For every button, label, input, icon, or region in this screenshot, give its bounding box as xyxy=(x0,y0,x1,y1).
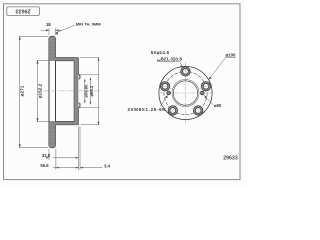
lug hole lower-left xyxy=(168,106,177,115)
bolt circle (dashed) xyxy=(164,71,207,114)
dim 152.2 extension lines xyxy=(37,60,49,121)
vertical centerline xyxy=(185,62,187,125)
svg-text:32.5: 32.5 xyxy=(42,153,51,158)
M8 hole right xyxy=(201,91,205,95)
arrowheads 55.6 xyxy=(56,167,59,169)
min-th leader arrow xyxy=(55,32,58,35)
arrow counterbore leader xyxy=(180,65,183,68)
hub plate faces xyxy=(74,58,78,125)
dim 271 extension lines xyxy=(19,36,49,147)
svg-text:⌀100: ⌀100 xyxy=(226,52,237,57)
dim 32.5 line xyxy=(53,157,79,159)
arrowheads 32.5 xyxy=(46,157,49,159)
hatch band top xyxy=(49,36,56,60)
title box xyxy=(7,7,40,16)
arrowheads dia152.2 xyxy=(36,60,38,63)
bore lines xyxy=(74,78,80,105)
arrowheads right dim xyxy=(98,58,100,61)
hub flange circle xyxy=(159,66,212,119)
hatch skirt top xyxy=(56,58,79,61)
hat skirt bottom xyxy=(56,122,79,125)
horizontal centerline xyxy=(159,92,213,94)
leader dia100 xyxy=(209,57,236,79)
svg-text:⌀152.2: ⌀152.2 xyxy=(38,83,43,98)
arrowheads thickness dim xyxy=(46,29,49,31)
leader dia80 xyxy=(204,96,214,106)
svg-text:29633: 29633 xyxy=(16,7,31,13)
lug hole top xyxy=(181,67,190,76)
right side dim line xyxy=(98,58,100,125)
dim 152.2 line xyxy=(37,60,39,121)
svg-text:18: 18 xyxy=(46,22,51,27)
lug hole upper-left xyxy=(160,82,169,91)
svg-text:⌀66.2: ⌀66.2 xyxy=(89,85,94,96)
svg-text:55.6: 55.6 xyxy=(40,163,49,168)
arrowhead 3.4 xyxy=(80,167,83,169)
centerline left view xyxy=(43,90,101,92)
border frame xyxy=(4,4,241,180)
bore circle 66.2 xyxy=(172,80,199,107)
M8 hole left xyxy=(167,91,171,95)
braking band outline xyxy=(49,36,56,147)
mounting pad step xyxy=(78,75,80,108)
band inner-diameter silhouette lines xyxy=(49,60,56,121)
svg-text:29633: 29633 xyxy=(223,155,238,161)
dim 59.85 line xyxy=(84,79,86,103)
arrowheads dia271 xyxy=(19,36,21,39)
hatch hub plate xyxy=(74,58,78,125)
svg-text:3.4: 3.4 xyxy=(104,163,110,168)
leader M8 xyxy=(161,95,168,106)
dim 66.2 line xyxy=(89,78,91,105)
min-th leader xyxy=(56,26,76,33)
arrow M8 leader xyxy=(165,95,168,98)
arrowheads dia66.2 xyxy=(90,78,92,81)
hatch skirt bottom xyxy=(56,122,79,125)
dim 55.6 line xyxy=(53,167,103,169)
svg-text:2XM8X1.25-6H: 2XM8X1.25-6H xyxy=(128,107,167,112)
lug hole radial centerline ticks xyxy=(158,64,212,116)
arrowheads dia59.85 xyxy=(84,79,86,82)
thickness dim arrow lines xyxy=(41,29,62,31)
svg-text:5X⌀14.6: 5X⌀14.6 xyxy=(151,50,170,55)
thickness dim extensions xyxy=(49,28,56,35)
svg-text:MIN TH. 9MM: MIN TH. 9MM xyxy=(76,21,102,26)
lug hole lower-right xyxy=(194,106,203,115)
svg-text:⌀80: ⌀80 xyxy=(214,103,222,108)
svg-text:⌀59.85: ⌀59.85 xyxy=(84,84,89,98)
leader counterbore callout xyxy=(157,62,182,68)
hatch band bottom xyxy=(49,122,56,148)
bore circle 59.85 xyxy=(173,81,197,105)
arrow dia100 leader xyxy=(209,77,212,80)
hat skirt top xyxy=(56,58,79,61)
svg-text:⌀271: ⌀271 xyxy=(20,85,25,96)
lug hole upper-right xyxy=(201,82,210,91)
right dim extension lines xyxy=(80,58,99,125)
arrow dia80 leader xyxy=(204,95,207,99)
dim 271 line xyxy=(19,36,21,147)
bottom dim verticals xyxy=(49,127,80,171)
svg-text:⌴⌀21.3↧0.8: ⌴⌀21.3↧0.8 xyxy=(157,56,182,61)
